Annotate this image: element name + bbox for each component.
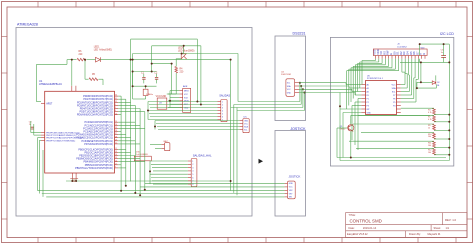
capacitor C3 — [29, 122, 34, 129]
svg-text:LED Yellow(SMD): LED Yellow(SMD) — [94, 49, 112, 51]
wire VCC to LCD — [299, 88, 352, 90]
capacitor C5 — [441, 49, 446, 61]
wire left loop 2 — [39, 140, 41, 193]
wire to R5 — [84, 60, 86, 80]
junction — [448, 138, 450, 140]
U1 pin PC6/RESET/PCINT14(PCI1) — [82, 139, 119, 142]
wire header bundle down — [359, 62, 361, 88]
wire header drop — [375, 59, 377, 61]
svg-text:32: 32 — [115, 101, 117, 103]
wire GND rail under U1 — [66, 179, 231, 182]
junction — [420, 81, 422, 83]
sensor DS1 DS18B20 — [134, 152, 151, 161]
svg-text:16: 16 — [115, 160, 117, 162]
svg-text:VCC/GND: VCC/GND — [156, 96, 167, 98]
wire — [413, 78, 415, 99]
wire DS3231 drop 2 — [300, 86, 302, 105]
wire PE0 — [31, 132, 41, 134]
wire header bundle down — [357, 63, 359, 91]
wire to Q1 base — [337, 127, 347, 129]
svg-text:15: 15 — [115, 157, 117, 159]
wire header to left — [358, 62, 383, 64]
svg-text:ATMEGA328: ATMEGA328 — [17, 23, 38, 27]
wire U1 PC pin — [118, 131, 121, 133]
wire header to left — [351, 67, 392, 69]
resistor R10 — [428, 133, 435, 139]
junction — [350, 157, 352, 159]
svg-text:P1: P1 — [367, 98, 369, 100]
U1 pin PE3 — [41, 139, 76, 142]
wire Q1 collector up — [350, 119, 352, 125]
junction — [230, 59, 232, 61]
wire bus right 2 — [233, 105, 235, 193]
svg-text:JOSTICK: JOSTICK — [290, 127, 306, 131]
U1 pin PC4/ADC4/SDA0/PCINT12(PCI1) — [76, 133, 118, 136]
svg-text:CONTROL SMD: CONTROL SMD — [350, 219, 382, 224]
wire to JOSTICK pin2 — [140, 186, 285, 188]
wire U1 PB pin — [118, 148, 126, 150]
wire vertical bus 5 — [139, 109, 141, 196]
wire — [406, 74, 408, 89]
U1 pin PD5/T1/OC0B/PCINT21(PCI2) — [79, 110, 118, 113]
frame tick bottom — [303, 238, 305, 243]
svg-text:SCL: SCL — [392, 91, 396, 93]
junction — [75, 180, 77, 182]
module box DS3231 — [275, 36, 306, 121]
U1 pin PC0/ADC0/PCINT8(PCI1) — [84, 121, 118, 124]
wire bottom loop 2 — [340, 160, 449, 162]
U1 pin ARST — [41, 102, 53, 105]
wire header to left — [353, 65, 389, 67]
svg-text:Drawn By:: Drawn By: — [409, 232, 421, 236]
frame tick left — [2, 72, 8, 74]
wire header drop — [394, 59, 396, 69]
wire BAT — [150, 144, 161, 146]
svg-text:25: 25 — [115, 127, 117, 129]
wire header drop — [398, 59, 400, 71]
junction — [132, 59, 134, 61]
frame tick top — [189, 2, 191, 8]
wire to AVR pin — [170, 96, 179, 98]
wire mid rail — [152, 63, 172, 65]
junction — [147, 110, 149, 112]
junction — [130, 59, 132, 61]
wire — [420, 62, 422, 82]
LED1 LED Yellow(SMD) — [94, 47, 112, 62]
svg-text:PD7/AIN1/PCINT23(PCI2): PD7/AIN1/PCINT23(PCI2) — [84, 143, 113, 146]
wire header drop — [417, 59, 419, 80]
wire — [33, 124, 35, 135]
wire D2 anode — [417, 81, 432, 83]
wire to AVR pin — [170, 103, 179, 105]
svg-text:ARST: ARST — [46, 102, 53, 105]
U1 pin PD1/TXD0/PCINT17(PCI2) — [83, 98, 118, 101]
junction — [120, 190, 122, 192]
wire — [66, 60, 68, 65]
svg-text:SCL: SCL — [287, 83, 291, 85]
wire header bundle down — [361, 61, 363, 85]
svg-text:BL: BL — [437, 85, 439, 87]
svg-text:7: 7 — [115, 167, 116, 169]
U1 pin PE2 — [41, 137, 83, 140]
wire resistor bottom — [434, 154, 449, 156]
svg-text:PE2/PTCXY/ADC6/ICP3/PCINT26(1): PE2/PTCXY/ADC6/ICP3/PCINT26(1) — [46, 137, 82, 140]
svg-text:8: 8 — [192, 184, 193, 186]
frame tick left — [2, 182, 8, 184]
wire to PCF P1 — [358, 98, 361, 100]
U1 pin PB0/ICP1/CLKO/PCINT0(PCI0) — [78, 148, 118, 151]
wire DS3231 drop 3 — [302, 89, 304, 107]
resistor R4 — [175, 67, 184, 74]
frame tick top — [455, 2, 457, 8]
wire to SALIDAS_HAL pin — [153, 170, 188, 172]
U1 pin PE1 — [41, 134, 76, 137]
wire left loop 1 — [36, 138, 38, 191]
wire to AVR pin — [168, 107, 179, 109]
svg-text:16MHz: 16MHz — [146, 94, 153, 96]
wire to AVR pin — [168, 93, 179, 95]
connector SALIDAS — [218, 94, 231, 122]
wire to SALIDAS pin — [149, 113, 218, 115]
svg-text:1: 1 — [115, 104, 116, 106]
wire resistor bottom — [434, 121, 449, 123]
wire to PCF GND — [343, 112, 361, 114]
wire U1 PC pin — [118, 127, 145, 129]
junction — [448, 61, 450, 63]
svg-text:PE1/PTCXY/AIN2/T4/MISO(1): PE1/PTCXY/AIN2/T4/MISO(1) — [46, 134, 76, 137]
svg-text:SALIDAS: SALIDAS — [219, 94, 230, 98]
wire loop left2 — [342, 113, 344, 158]
junction — [416, 87, 418, 89]
wire header to left — [355, 64, 385, 66]
wire resistor top feed — [401, 107, 434, 109]
svg-text:7: 7 — [192, 181, 193, 183]
wire header drop — [391, 59, 393, 68]
frame tick bottom — [151, 238, 153, 243]
wire resistor top feed — [358, 114, 434, 116]
wire to I2C pin — [155, 120, 240, 122]
wire to I2C pin — [158, 129, 240, 131]
wire — [336, 128, 338, 158]
junction — [151, 63, 153, 65]
IC U1 ATMEGA328PB-AU body — [45, 91, 115, 173]
wire inner loop top — [152, 45, 201, 47]
svg-text:14: 14 — [115, 154, 117, 156]
wire — [408, 75, 410, 92]
wire — [400, 61, 420, 63]
svg-text:P2: P2 — [367, 102, 369, 104]
svg-text:MISO: MISO — [184, 91, 189, 93]
svg-text:SW: SW — [289, 197, 292, 199]
wire U1 PB pin — [118, 161, 145, 163]
svg-text:PD6/AIN0/OC0A/PCINT22(PCI2): PD6/AIN0/OC0A/PCINT22(PCI2) — [77, 114, 113, 117]
wire — [132, 72, 134, 87]
U1 pin PD3/INT1/OC2B/PCINT19(PCI2) — [77, 104, 118, 107]
svg-text:DS3231: DS3231 — [293, 32, 306, 36]
wire U1 PB pin — [118, 167, 126, 169]
wire to DS3231 SDA — [238, 101, 300, 103]
svg-text:I2C LCD: I2C LCD — [440, 32, 454, 36]
frame tick top — [151, 2, 153, 8]
wire U1 PC pin — [118, 143, 140, 145]
U1 pin PB1/OC1A/PCINT1(PCI0) — [84, 151, 118, 154]
svg-text:6: 6 — [222, 116, 223, 118]
svg-text:Mayashi M.: Mayashi M. — [428, 232, 442, 236]
wire header to right — [411, 76, 413, 78]
wire to AVR pin — [170, 90, 179, 92]
svg-text:P5: P5 — [393, 102, 395, 104]
wire LED5 to R4 — [176, 59, 181, 67]
wire U1 PC pin — [118, 124, 140, 126]
junction — [132, 85, 134, 87]
junction — [84, 59, 86, 61]
wire right rail — [448, 44, 450, 160]
wire header drop — [388, 59, 390, 67]
svg-text:4.7k: 4.7k — [428, 119, 432, 121]
wire Q1 emitter down — [350, 131, 352, 157]
wire VCC drop to U1 — [71, 60, 73, 86]
svg-text:PCF8574T/3.0.1: PCF8574T/3.0.1 — [367, 78, 384, 80]
wire resistor bottom — [434, 147, 449, 149]
wire header drop — [401, 59, 403, 72]
resistor R9 — [428, 124, 435, 130]
wire PE2 — [37, 137, 41, 139]
svg-text:3: 3 — [192, 167, 193, 169]
svg-text:1/1: 1/1 — [446, 226, 450, 230]
wire to U3 — [167, 93, 176, 95]
junction — [448, 114, 450, 116]
wire — [419, 44, 421, 55]
frame tick right — [467, 218, 473, 220]
resistor R12 — [428, 148, 435, 154]
IC U4 DS3231M — [281, 71, 299, 96]
wire GND to LCD — [299, 92, 355, 94]
svg-text:LCD16X2: LCD16X2 — [397, 46, 407, 48]
svg-text:PB6/XTAL1/TOSC1/PCINT6(PCI0): PB6/XTAL1/TOSC1/PCINT6(PCI0) — [75, 167, 113, 170]
wire PE1 — [34, 134, 41, 136]
svg-text:A0: A0 — [367, 83, 369, 86]
crystal Q2 16MHz — [143, 89, 153, 96]
junction — [299, 82, 301, 84]
svg-text:VCC: VCC — [392, 84, 397, 86]
U1 GND bottom pins — [71, 173, 73, 179]
svg-text:Date:: Date: — [349, 226, 355, 230]
wire BAT2 — [155, 148, 161, 150]
wire — [132, 54, 134, 100]
wire top bus VCC — [133, 53, 238, 55]
wire — [351, 106, 353, 141]
wire U1 PB pin — [118, 155, 135, 157]
wire — [351, 89, 353, 91]
svg-text:27: 27 — [115, 133, 117, 135]
svg-text:2: 2 — [115, 107, 116, 109]
wire to PCF right pin — [401, 84, 405, 86]
wire — [351, 114, 430, 116]
svg-text:GND: GND — [244, 120, 249, 122]
transistor Q1 — [340, 124, 354, 131]
frame tick right — [467, 72, 473, 74]
svg-text:10: 10 — [115, 113, 117, 115]
wire vertical bus 1 — [120, 96, 122, 191]
module box JOSTICK — [275, 131, 306, 217]
wire LED1 to bus — [100, 59, 230, 61]
frame tick bottom — [265, 238, 267, 243]
wire U1 PD pin — [118, 104, 135, 106]
svg-text:K: K — [422, 53, 426, 55]
U1 VCC top pins — [71, 86, 73, 92]
wire header bundle down — [350, 68, 352, 102]
junction — [304, 92, 306, 94]
wire from C3 — [30, 121, 32, 133]
svg-text:P3: P3 — [367, 105, 369, 107]
wire net RESET to R6 — [67, 59, 77, 61]
wire to PCF A0 — [346, 84, 361, 86]
wire LED5 top — [183, 46, 185, 54]
junction — [149, 170, 151, 172]
svg-text:A1: A1 — [367, 87, 369, 90]
svg-text:P4: P4 — [393, 105, 395, 107]
wire I2C feeder — [154, 121, 156, 130]
wire to SALIDAS pin — [150, 107, 218, 109]
junction — [139, 194, 141, 196]
wire to PCF right pin — [401, 98, 414, 100]
svg-text:4.7k: 4.7k — [428, 112, 432, 114]
wire R6 to LED1 — [87, 59, 96, 61]
frame tick top — [75, 2, 77, 8]
wire header to right — [414, 77, 415, 79]
wire header to right — [405, 73, 407, 75]
wire to I2C pin — [157, 126, 240, 128]
wire header drop — [384, 59, 386, 65]
svg-text:GND: GND — [184, 108, 189, 110]
resistor R3 — [428, 108, 435, 114]
wire U1 PD pin — [118, 114, 121, 116]
wire inner loop right — [200, 46, 202, 105]
wire DS3231 to LCD — [299, 83, 355, 93]
wire to PCF P2 — [355, 101, 361, 103]
wire vertical bus 6 — [144, 112, 146, 190]
U1 pin PD6/AIN0/OC0A/PCINT22(PCI2) — [77, 113, 118, 116]
svg-text:DS3231M: DS3231M — [281, 74, 291, 76]
wire bus right 1 — [230, 60, 232, 191]
svg-text:10k: 10k — [428, 145, 431, 147]
svg-text:1: 1 — [222, 101, 223, 103]
wire D2 top — [435, 75, 437, 80]
wire R5 left — [85, 78, 89, 80]
frame tick bottom — [227, 238, 229, 243]
wire — [145, 86, 147, 89]
U1 pin PB3/MOSI0/OC2A/PCINT3(PCI0) — [76, 157, 118, 160]
wire resistor top feed — [349, 140, 434, 142]
resistor R11 — [428, 141, 435, 147]
wire to ARST — [36, 64, 38, 101]
svg-text:4: 4 — [222, 110, 223, 112]
svg-text:Sheet:: Sheet: — [434, 226, 442, 230]
frame tick bottom — [189, 238, 191, 243]
U1 pin PB6/XTAL1/TOSC1/PCINT6(PCI0) — [75, 167, 118, 170]
wire xtal bottom — [133, 85, 157, 87]
svg-text:2: 2 — [222, 104, 223, 106]
U1 pin PE0 — [41, 132, 80, 135]
wire U1 PB pin — [118, 151, 130, 153]
wire to SALIDAS pin — [148, 119, 218, 121]
wire header to left — [362, 60, 376, 62]
wire — [416, 82, 418, 88]
wire into ARST pin — [37, 101, 42, 103]
svg-text:2019-01-14: 2019-01-14 — [363, 226, 377, 230]
junction — [134, 192, 136, 194]
wire U1 PC pin — [118, 140, 135, 142]
U1 pin PD4/T0/XCK0/PCINT20(PCI2) — [80, 107, 118, 110]
junction — [144, 189, 146, 191]
capacitor C1 — [141, 73, 146, 84]
junction — [183, 45, 185, 47]
svg-text:4: 4 — [192, 171, 193, 173]
junction — [181, 53, 183, 55]
wire U1 PC pin — [118, 121, 135, 123]
U1 pin PB4/MISO0/PCINT4(PCI0) — [84, 160, 119, 163]
svg-text:REV: 1.0: REV: 1.0 — [445, 218, 457, 222]
wire bottom loop 1 — [337, 157, 446, 159]
frame tick bottom — [417, 238, 419, 243]
svg-text:13: 13 — [115, 151, 117, 153]
frame tick left — [2, 36, 8, 38]
connector JOSTICK — [285, 174, 301, 198]
junction — [420, 61, 422, 63]
junction — [302, 88, 304, 90]
svg-text:29: 29 — [115, 139, 117, 141]
wire to SALIDAS pin — [148, 110, 218, 112]
svg-text:GND: GND — [367, 112, 372, 114]
frame tick top — [417, 2, 419, 8]
wire header bundle down — [348, 69, 350, 105]
wire AVR feeder — [169, 91, 171, 108]
wire resistor bottom — [434, 114, 449, 116]
junction — [169, 100, 171, 102]
wire — [404, 72, 406, 84]
frame tick top — [265, 2, 267, 8]
svg-text:LED Blue(SMD): LED Blue(SMD) — [178, 50, 195, 52]
wire to PCF INT — [340, 108, 361, 110]
junction — [132, 71, 134, 73]
svg-text:TITLE:: TITLE: — [349, 214, 357, 217]
wire — [420, 61, 450, 63]
U1 pin PC5/ADC5/SCL0/PCINT13(PCI1) — [76, 136, 118, 139]
wire U1 PC pin — [118, 134, 126, 136]
wire D2 cathode — [435, 84, 437, 88]
module box I2C LCD — [330, 37, 453, 166]
wire loop left — [339, 93, 341, 161]
junction — [125, 185, 127, 187]
wire R5 right — [99, 78, 104, 80]
frame tick right — [467, 145, 473, 147]
wire to PCF P0 — [355, 94, 361, 96]
wire resistor top feed — [353, 123, 434, 125]
ground symbol under U1 — [70, 179, 78, 182]
connector J4 LCD header — [373, 44, 428, 59]
junction — [448, 129, 450, 131]
wire header drop — [411, 59, 413, 77]
wire resistor bottom — [434, 129, 449, 131]
wire — [345, 83, 347, 85]
wire — [37, 63, 68, 65]
wire bottom bus 2 — [42, 193, 285, 195]
resistor R7 — [428, 115, 435, 121]
wire header drop — [381, 59, 383, 64]
wire DS3231 drop 4 — [304, 93, 306, 111]
wire to PCF P3 — [352, 105, 361, 107]
frame tick left — [2, 145, 8, 147]
